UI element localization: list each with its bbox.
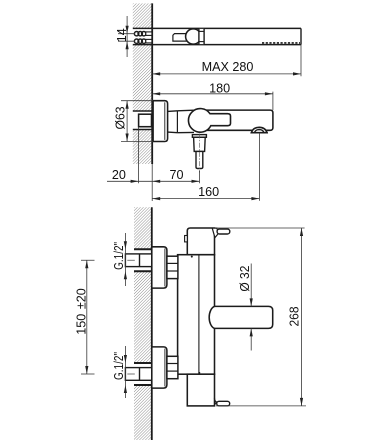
- dimension Ø32 leader lines: [250, 264, 253, 351]
- wall face line (upper views): [151, 3, 153, 201]
- svg-text:Ø 32: Ø 32: [238, 266, 252, 292]
- dimension MAX 280 extension line: [300, 45, 302, 77]
- dimension text 160: [198, 185, 219, 199]
- dimension text 268: [288, 307, 302, 327]
- diverter foot (plan view): [214, 398, 230, 406]
- svg-text:70: 70: [169, 168, 183, 182]
- holder clip: [199, 29, 204, 44]
- hex nut inlet 2 (plan view): [167, 356, 178, 378]
- dimension 150 +-20 line: [85, 260, 88, 374]
- svg-text:268: 268: [288, 307, 302, 327]
- hose thread coils row 1: [134, 32, 152, 36]
- dimension text 180: [209, 81, 230, 95]
- dimension 14 line and arrows: [126, 16, 129, 57]
- dimension text G.1/2 inlet 2: [112, 352, 126, 380]
- dimension 180 line: [152, 92, 273, 95]
- hand shower handle (top view) outline: [133, 28, 301, 44]
- svg-text:Ø63: Ø63: [113, 107, 127, 130]
- dimension 70 extension line (hose axis): [199, 171, 201, 184]
- dimension Ø63 line: [126, 101, 129, 142]
- supply pipe inlet 1: [125, 254, 151, 267]
- svg-text:MAX 280: MAX 280: [202, 60, 254, 74]
- dimension 14 extension lines: [118, 34, 135, 42]
- lever handle (plan view): [212, 228, 230, 238]
- wall hole edges inlet 2: [134, 363, 152, 385]
- svg-text:±20: ±20: [75, 288, 89, 309]
- wall (plan view) hatched section: [134, 207, 152, 440]
- wall hole edges inlet 1: [134, 249, 152, 271]
- shower hose collar: [192, 135, 206, 138]
- aerator under spout: [251, 127, 268, 132]
- wall holder ring (top view): [186, 29, 201, 44]
- escutcheon plate (side view): [153, 101, 168, 142]
- body neck (side view): [168, 110, 194, 133]
- dimension G.1/2 inlet 1 line: [124, 233, 127, 286]
- escutcheon inlet 1 (plan view): [152, 247, 167, 288]
- dimension text Ø32: [238, 266, 252, 292]
- svg-text:150: 150: [75, 314, 89, 335]
- spout (side view): [203, 110, 273, 130]
- dimension MAX 280 line: [152, 72, 301, 75]
- in-wall hole edges (side view): [133, 111, 153, 130]
- ball joint and lever handle (side view, fused silhouette): [188, 109, 230, 133]
- 268 bottom extension line: [216, 405, 306, 407]
- hose dashed line at handle end: [262, 42, 300, 44]
- dimension text 20: [112, 168, 126, 182]
- dimension text Ø63: [113, 107, 127, 130]
- hose thread coils row 2: [134, 39, 152, 43]
- 268 top extension line: [215, 227, 305, 229]
- dimension text MAX 280: [202, 60, 254, 74]
- dimension 160 extension line (from aerator): [258, 133, 260, 201]
- svg-text:180: 180: [209, 81, 230, 95]
- dimension 150 +-20 extension lines: [81, 260, 95, 374]
- dimension 20 / 70 line and arrows: [107, 180, 200, 183]
- supply pipe inlet 2: [125, 368, 151, 381]
- dimension G.1/2 inlet 2 line: [124, 346, 127, 398]
- svg-text:14: 14: [115, 28, 129, 42]
- svg-text:G.1/2": G.1/2": [112, 242, 126, 270]
- in-wall connection box (side view): [139, 114, 152, 127]
- wall (top view + side view) hatched section: [133, 3, 152, 164]
- shower hose connector block: [194, 137, 206, 151]
- escutcheon inlet 2 (plan view): [152, 347, 167, 388]
- dimension text G.1/2 inlet 1: [112, 242, 126, 270]
- dimension text 14: [115, 28, 129, 42]
- wall face line (plan view): [151, 207, 153, 440]
- spout (plan view): [209, 306, 273, 328]
- body top cap (plan view): [185, 228, 215, 258]
- body bottom cap (plan view): [187, 372, 214, 406]
- dimension 180 extension line: [272, 92, 274, 111]
- mixer body barrel (plan view): [178, 255, 215, 375]
- dimension text 150 +-20: [75, 288, 89, 335]
- dimension text 70: [169, 168, 183, 182]
- dimension Ø63 extension lines: [121, 101, 153, 142]
- dimension 160 line: [152, 197, 259, 200]
- dimension 20 extension line (from in-wall box): [138, 127, 140, 184]
- hex nut inlet 1 (plan view): [167, 256, 178, 278]
- handle grip inner rectangle: [173, 34, 190, 42]
- svg-text:20: 20: [112, 168, 126, 182]
- svg-text:G.1/2": G.1/2": [112, 352, 126, 380]
- svg-text:160: 160: [198, 185, 219, 199]
- dimension 268 line: [300, 228, 303, 406]
- shower hose nipple: [196, 134, 203, 173]
